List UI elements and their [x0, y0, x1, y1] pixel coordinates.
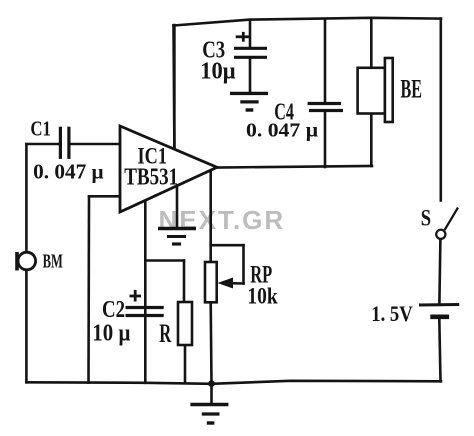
buzzer BE body	[358, 68, 385, 114]
wire op-amp V+ supply	[173, 25, 176, 149]
capacitor C3 plates	[234, 48, 267, 57]
main ground symbol	[190, 405, 228, 424]
switch S lever	[445, 208, 458, 231]
wire top box left edge	[172, 26, 175, 150]
wire BE top	[370, 18, 373, 68]
wire RP wiper arrow shaft	[230, 282, 244, 285]
wire bottom rail	[26, 381, 441, 384]
wire C1 right to op-amp	[71, 143, 120, 146]
resistor R body	[178, 302, 192, 345]
wire RP bottom	[209, 302, 212, 383]
wire op-amp output	[217, 166, 372, 168]
microphone BM circle	[18, 252, 36, 270]
svg-text:R: R	[159, 319, 171, 348]
svg-text:0. 047 μ: 0. 047 μ	[33, 160, 104, 184]
C2 plus sign	[130, 290, 142, 302]
wire C4 bottom	[324, 112, 327, 168]
ground under C3	[230, 93, 268, 110]
wire C1 left	[26, 143, 59, 146]
op-amp U1 IC1 TB531 triangle	[120, 126, 217, 212]
wire battery bottom	[439, 319, 440, 382]
svg-text:C1: C1	[30, 117, 51, 141]
RP wiper arrowhead	[218, 278, 234, 289]
potentiometer RP body	[205, 262, 217, 302]
capacitor C4 plates	[308, 104, 343, 111]
wire feedback vertical	[87, 196, 90, 382]
wire RP branch vertical	[209, 170, 212, 263]
wire C3 branch top	[249, 21, 252, 48]
wire RP wiper vertical	[242, 245, 245, 283]
capacitor C1 plates	[60, 127, 69, 159]
wire R bottom	[184, 345, 187, 383]
wire opamp ground stem	[176, 186, 179, 227]
wire BE bottom	[370, 114, 373, 167]
buzzer BE plate	[385, 58, 393, 122]
wire right rail upper	[439, 19, 442, 201]
svg-text:TB531: TB531	[124, 164, 178, 190]
junction dot bottom rail	[208, 380, 215, 387]
svg-text:10 μ: 10 μ	[92, 320, 130, 347]
C3 plus sign	[236, 32, 250, 42]
wire C4 branch top	[324, 19, 327, 102]
wire RP wiper horizontal top	[211, 244, 244, 247]
svg-text:10k: 10k	[247, 284, 278, 310]
ground under op-amp	[158, 229, 196, 245]
wire left rail	[25, 144, 28, 382]
svg-text:10μ: 10μ	[200, 59, 236, 85]
capacitor C2 plates	[126, 308, 164, 316]
wire C2 to R jog	[145, 259, 184, 262]
microphone BM bar	[15, 252, 19, 271]
wire inverting input	[89, 195, 120, 198]
wire R top	[183, 261, 186, 303]
wire C3 to ground	[249, 58, 252, 92]
svg-text:BM: BM	[43, 250, 63, 272]
wire top rail	[174, 18, 442, 26]
svg-text:1. 5V: 1. 5V	[371, 301, 412, 326]
switch S contact circle	[436, 230, 445, 239]
wire C2 branch	[144, 200, 147, 382]
wire switch lower	[439, 239, 440, 303]
svg-text:BE: BE	[401, 74, 423, 104]
battery B1 plates	[419, 303, 459, 307]
svg-text:S: S	[421, 206, 431, 231]
svg-text:0. 047 μ: 0. 047 μ	[246, 120, 319, 142]
wire main ground stem	[210, 384, 213, 403]
